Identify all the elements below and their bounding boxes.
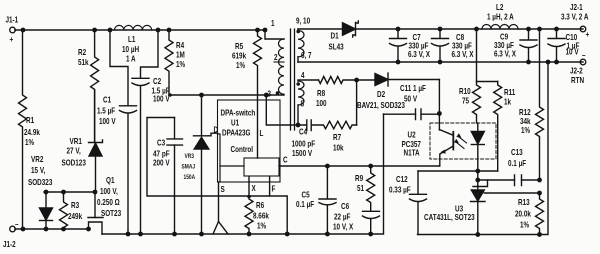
svg-text:R6: R6 xyxy=(256,200,264,210)
svg-text:C11 1 µF: C11 1 µF xyxy=(400,83,426,93)
svg-text:–: – xyxy=(582,50,586,60)
transformer bias winding 4-5 xyxy=(298,81,304,105)
inductor L1 10uH 1A xyxy=(115,25,152,63)
svg-text:1: 1 xyxy=(271,18,275,28)
wire: bias top lead to R8 xyxy=(298,80,319,81)
svg-text:RTN: RTN xyxy=(571,75,584,85)
capacitor C11 1uF 50V xyxy=(384,83,440,119)
svg-text:C6: C6 xyxy=(341,201,349,211)
resistor R3 249k xyxy=(60,192,83,229)
svg-text:20.0k: 20.0k xyxy=(515,209,532,219)
svg-text:1k: 1k xyxy=(504,97,512,107)
svg-text:SL43: SL43 xyxy=(329,42,344,52)
wire: R7 up to bias node xyxy=(356,80,358,125)
op IC U1 DPA-switch DPA423G xyxy=(218,100,281,182)
svg-text:N1TA: N1TA xyxy=(404,148,421,158)
resistor R7 10k xyxy=(311,121,356,153)
capacitor C13 0.1uF xyxy=(508,147,526,185)
zener VR1 27V SOD123 xyxy=(62,90,103,192)
svg-text:L1: L1 xyxy=(128,34,135,44)
svg-text:24.9k: 24.9k xyxy=(24,127,41,137)
optocoupler U2 PC357 N1TA xyxy=(402,123,497,159)
resistor R12 34k 1% xyxy=(519,29,544,180)
opto phototransistor xyxy=(439,130,453,167)
svg-text:F: F xyxy=(272,184,276,194)
svg-text:3: 3 xyxy=(268,89,272,99)
pin label 2 (tap) xyxy=(274,61,284,63)
transformer secondary winding 9,10-6,7 xyxy=(298,31,304,57)
resistor R9 51 xyxy=(355,166,375,211)
zener VR2 15V SOD323 xyxy=(28,154,53,229)
svg-text:1 µH, 2 A: 1 µH, 2 A xyxy=(487,12,514,22)
svg-text:100 V: 100 V xyxy=(153,94,170,104)
wire: input - bottom rail (left of Q1) xyxy=(15,228,89,230)
resistor R6 8.66k 1% (X pin) xyxy=(245,195,270,234)
svg-text:1%: 1% xyxy=(176,59,185,69)
svg-text:+: + xyxy=(10,34,14,44)
svg-text:51: 51 xyxy=(357,183,364,193)
resistor R13 20.0k 1% xyxy=(515,193,544,235)
svg-text:6.3 V, X: 6.3 V, X xyxy=(494,49,516,59)
svg-text:50 V: 50 V xyxy=(404,94,417,104)
transformer primary winding 1-3 xyxy=(279,39,285,94)
svg-text:C4: C4 xyxy=(299,127,308,137)
svg-text:D1: D1 xyxy=(331,31,339,41)
wire: +3.3V sense drop to R10/R11 xyxy=(476,29,478,82)
svg-text:C: C xyxy=(283,155,288,165)
svg-text:S: S xyxy=(221,184,225,194)
svg-text:R3: R3 xyxy=(71,200,79,210)
svg-text:100 V,: 100 V, xyxy=(100,186,118,196)
wire: secondary + rail y29 xyxy=(298,28,343,30)
svg-text:Q1: Q1 xyxy=(106,175,114,185)
svg-text:10k: 10k xyxy=(333,143,344,153)
inductor L2 1uH 2A xyxy=(482,2,518,29)
svg-text:R9: R9 xyxy=(355,173,363,183)
svg-text:C12: C12 xyxy=(396,174,408,184)
capacitor C10 1uF 10V xyxy=(548,29,580,62)
svg-text:100 V: 100 V xyxy=(99,116,116,126)
svg-text:C13: C13 xyxy=(511,147,523,157)
svg-text:U1: U1 xyxy=(231,118,239,128)
svg-text:DPA-switch: DPA-switch xyxy=(221,108,256,118)
resistor R11 1k xyxy=(494,82,516,172)
node: secondary polarity dot xyxy=(296,30,300,34)
svg-text:R7: R7 xyxy=(333,132,341,142)
wire: bias dc node down to opto collector xyxy=(438,80,440,131)
svg-text:100: 100 xyxy=(316,98,327,108)
wire: bias bottom lead xyxy=(297,105,299,125)
capacitor C12 0.33uF xyxy=(389,171,427,235)
svg-text:150A: 150A xyxy=(184,174,196,181)
svg-text:1 A: 1 A xyxy=(126,54,136,64)
svg-text:6, 7: 6, 7 xyxy=(301,50,312,60)
svg-text:C1: C1 xyxy=(103,95,111,105)
svg-text:R1: R1 xyxy=(26,115,34,125)
node: bias polarity dot xyxy=(296,82,300,86)
wire: clamp/Y-cap line y125 xyxy=(266,95,306,125)
svg-text:1%: 1% xyxy=(520,220,529,230)
connector J1-2 (- input terminal) xyxy=(3,219,19,249)
resistor R1 24.9k 1% xyxy=(19,30,41,229)
svg-text:2: 2 xyxy=(274,52,278,62)
svg-text:L: L xyxy=(260,128,264,138)
svg-text:15 V,: 15 V, xyxy=(31,165,45,175)
svg-text:75: 75 xyxy=(462,96,469,106)
svg-text:1500 V: 1500 V xyxy=(292,148,312,158)
wire: secondary top lead xyxy=(297,29,299,31)
svg-text:+: + xyxy=(586,29,590,39)
svg-text:51k: 51k xyxy=(78,57,89,67)
resistor R2 51k xyxy=(78,30,99,143)
svg-text:0.1 µF: 0.1 µF xyxy=(508,158,526,168)
svg-text:0.250 Ω: 0.250 Ω xyxy=(97,197,120,207)
svg-text:SMAJ: SMAJ xyxy=(182,164,196,171)
connector J2-1 (+3.3V output) xyxy=(561,2,590,39)
wire: C12/R11 node line y171 xyxy=(418,170,498,172)
wire: S pin with source fan-out legs xyxy=(213,182,228,234)
svg-text:6.3 V, X: 6.3 V, X xyxy=(408,49,430,59)
svg-text:J1-2: J1-2 xyxy=(3,239,16,249)
wire: secondary feedback ground rail xyxy=(418,62,549,235)
svg-text:27 V,: 27 V, xyxy=(67,146,81,156)
svg-text:0.1 µF: 0.1 µF xyxy=(296,199,314,209)
transformer core xyxy=(291,29,295,130)
wire: secondary bottom lead xyxy=(297,57,299,62)
wire: primary ground rail (right of Q1) xyxy=(102,114,384,234)
svg-text:200 V: 200 V xyxy=(153,158,170,168)
capacitor C8 330uF 6.3V X xyxy=(432,29,474,62)
capacitor C2 1.5uF 100V xyxy=(132,30,170,234)
wire: UV sense node (horizontal y192) xyxy=(44,191,95,193)
svg-text:6.3 V, X: 6.3 V, X xyxy=(452,49,474,59)
svg-text:R2: R2 xyxy=(78,47,86,57)
wire: LED cathode node down to U3 xyxy=(477,159,479,190)
capacitor C3 47pF 200V xyxy=(153,118,183,235)
svg-text:BAV21, SOD323: BAV21, SOD323 xyxy=(357,100,405,110)
svg-text:1%: 1% xyxy=(236,60,245,70)
svg-text:SOD123: SOD123 xyxy=(62,158,86,168)
svg-text:R13: R13 xyxy=(518,197,530,207)
svg-text:SOT23: SOT23 xyxy=(101,208,121,218)
wire: C pin line to opto emitter xyxy=(279,165,439,167)
node: primary polarity dot xyxy=(276,91,280,95)
opto LED xyxy=(454,123,484,159)
wire: D pin lead xyxy=(209,133,218,136)
svg-text:X: X xyxy=(252,183,256,193)
wire: input + top rail xyxy=(15,29,265,31)
svg-text:1%: 1% xyxy=(257,221,266,231)
wire: ref line y180 through C13 xyxy=(478,179,540,181)
capacitor C1 1.5uF 100V xyxy=(97,30,137,234)
wire: X pin lead xyxy=(248,177,250,197)
capacitor C7 330uF 6.3V X xyxy=(390,29,431,62)
svg-text:0.33 µF: 0.33 µF xyxy=(389,185,411,195)
wire: F pin to source line xyxy=(269,177,271,197)
connector J2-2 (RTN output) xyxy=(570,50,586,85)
svg-text:–: – xyxy=(15,219,19,229)
wire: X/source net (x147 riser, y117.5 and y196 runs) xyxy=(147,118,287,235)
wire: secondary return rail y62 xyxy=(298,61,583,63)
svg-text:9, 10: 9, 10 xyxy=(296,16,310,26)
svg-text:22 µF: 22 µF xyxy=(334,212,351,222)
transistor Q1 100V 0.250ohm SOT23 (MOSFET in return path) xyxy=(88,175,121,234)
svg-text:249k: 249k xyxy=(68,211,83,221)
shunt reference U3 CAT431L SOT23 xyxy=(424,180,540,235)
svg-text:CAT431L, SOT23: CAT431L, SOT23 xyxy=(424,212,475,222)
svg-text:8.66k: 8.66k xyxy=(253,211,270,221)
diode D2 BAV21 SOD323 xyxy=(357,73,439,110)
capacitor C4 1000pF 1500V xyxy=(292,120,316,158)
svg-text:C3: C3 xyxy=(157,138,165,148)
resistor R5 619k 1% xyxy=(232,30,262,158)
capacitor C9 330uF 6.3V X xyxy=(494,29,537,62)
svg-text:SOD323: SOD323 xyxy=(28,177,52,187)
wire: drain node (horizontal y95) xyxy=(169,94,284,96)
svg-text:1%: 1% xyxy=(25,137,34,147)
svg-text:VR3: VR3 xyxy=(185,153,195,160)
connector J1-1 (+ input terminal) xyxy=(6,15,19,45)
TVS VR3 SMAJ150A xyxy=(182,95,209,234)
node: rail junctions (dots) xyxy=(21,28,268,33)
resistor R4 1M 1% xyxy=(165,30,185,95)
svg-text:10 V, X: 10 V, X xyxy=(333,222,353,232)
svg-text:VR2: VR2 xyxy=(31,154,43,164)
svg-text:5: 5 xyxy=(301,99,305,109)
diode D1 SL43 (schottky) xyxy=(329,21,359,52)
svg-text:DPA423G: DPA423G xyxy=(222,128,251,138)
resistor R8 100 xyxy=(316,77,375,109)
svg-text:1%: 1% xyxy=(521,125,530,135)
resistor R10 75 xyxy=(459,82,481,124)
svg-text:R8: R8 xyxy=(317,88,325,98)
svg-text:1.5 µF: 1.5 µF xyxy=(97,106,115,116)
svg-text:Control: Control xyxy=(231,144,254,154)
svg-text:D2: D2 xyxy=(377,89,385,99)
wire: pin 1 lead xyxy=(265,30,284,39)
capacitor C6 22uF 10V X xyxy=(333,201,380,234)
capacitor C5 0.1uF (control) xyxy=(296,166,336,234)
svg-text:10 V: 10 V xyxy=(566,47,579,57)
svg-text:3.3 V, 2 A: 3.3 V, 2 A xyxy=(561,12,589,22)
svg-text:J1-1: J1-1 xyxy=(6,15,19,25)
